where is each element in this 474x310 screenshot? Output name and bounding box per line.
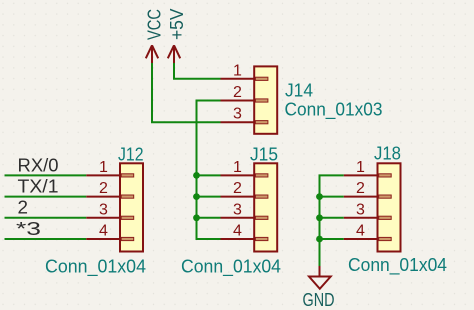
junction J15 pin 1	[193, 172, 200, 179]
wire net TX/1 to J12 pin 2	[5, 196, 87, 198]
svg-text:3: 3	[233, 106, 242, 123]
J12 pin 1	[86, 174, 120, 176]
svg-text:4: 4	[99, 223, 108, 240]
svg-text:1: 1	[233, 62, 242, 79]
junction J18 pin 3	[316, 214, 323, 221]
svg-text:*3: *3	[16, 219, 41, 239]
J15 pin 1	[221, 174, 255, 176]
J18 pin 4	[344, 238, 378, 240]
svg-text:J18: J18	[374, 144, 401, 164]
svg-text:4: 4	[356, 223, 365, 240]
svg-text:1: 1	[233, 159, 242, 176]
junction J18 pin 4	[316, 236, 323, 243]
wire branch J15 pin 3	[197, 217, 221, 219]
svg-text:3: 3	[356, 201, 365, 218]
J12 pin 2	[86, 196, 120, 198]
wire branch J18 pin 2	[320, 196, 344, 198]
J15 pin 4	[221, 238, 255, 240]
svg-text:2: 2	[18, 198, 29, 218]
svg-text:1: 1	[99, 159, 108, 176]
J14 pin 3	[221, 121, 255, 123]
wire branch J18 pin 3	[320, 217, 344, 219]
power symbol VCC	[146, 45, 158, 63]
svg-text:VCC: VCC	[144, 9, 164, 40]
svg-text:2: 2	[356, 180, 365, 197]
svg-text:4: 4	[233, 223, 242, 240]
wire VCC to J14 pin 3	[152, 59, 221, 122]
svg-text:2: 2	[233, 84, 242, 101]
svg-text:Conn_01x04: Conn_01x04	[181, 257, 281, 278]
svg-text:J14: J14	[285, 81, 313, 101]
svg-text:Conn_01x04: Conn_01x04	[45, 257, 146, 278]
wire +5V to J14 pin 1	[174, 59, 221, 79]
wire net 2 to J12 pin 3	[5, 217, 87, 219]
svg-text:RX/0: RX/0	[18, 155, 59, 175]
junction J15 pin 3	[193, 214, 200, 221]
wire J18 pin 1 down to GND	[320, 175, 344, 266]
junction J15 pin 2	[193, 193, 200, 200]
J15 pin 3	[221, 217, 255, 219]
svg-text:1: 1	[356, 159, 365, 176]
J14 pin 1	[221, 78, 255, 80]
wire branch J18 pin 4	[320, 238, 344, 240]
svg-text:J15: J15	[250, 145, 278, 165]
svg-text:Conn_01x04: Conn_01x04	[348, 255, 447, 276]
wire J14 pin 2 down to J15 pin 4	[197, 101, 221, 240]
wire branch J15 pin 1	[197, 174, 221, 176]
svg-text:2: 2	[99, 180, 108, 197]
svg-text:TX/1: TX/1	[18, 177, 59, 197]
svg-text:3: 3	[99, 201, 108, 218]
svg-text:J12: J12	[118, 145, 144, 165]
svg-text:GND: GND	[303, 290, 335, 310]
J18 pin 2	[344, 196, 378, 198]
power symbol +5V	[168, 45, 180, 63]
connector J18 body	[378, 163, 401, 251]
wire net RX/0 to J12 pin 1	[5, 174, 87, 176]
wire net *3 to J12 pin 4	[5, 238, 87, 240]
J12 pin 4	[86, 238, 120, 240]
connector J15 body	[254, 163, 277, 251]
J18 pin 3	[344, 217, 378, 219]
J15 pin 2	[221, 196, 255, 198]
svg-text:+5V: +5V	[167, 9, 187, 41]
wire branch J15 pin 2	[197, 196, 221, 198]
svg-text:2: 2	[233, 180, 242, 197]
power symbol GND	[319, 266, 321, 276]
J14 pin 2	[221, 100, 255, 102]
svg-text:Conn_01x03: Conn_01x03	[285, 100, 383, 121]
J18 pin 1	[344, 174, 378, 176]
svg-text:3: 3	[233, 201, 242, 218]
junction J18 pin 2	[316, 193, 323, 200]
J12 pin 3	[86, 217, 120, 219]
connector J12 body	[120, 163, 143, 251]
connector J14 body	[254, 66, 277, 133]
